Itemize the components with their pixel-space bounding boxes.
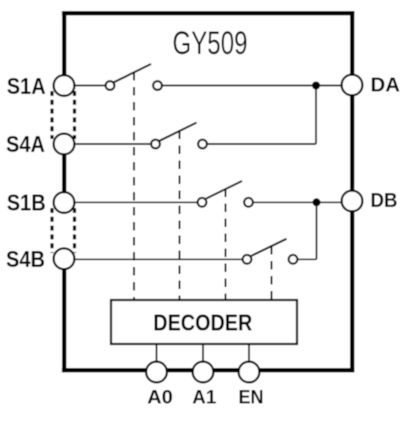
svg-text:DA: DA [371,74,401,96]
svg-text:S4B: S4B [6,246,45,272]
svg-text:GY509: GY509 [173,25,248,61]
svg-text:EN: EN [239,387,264,409]
svg-text:A1: A1 [192,387,216,409]
svg-text:S1A: S1A [7,73,46,99]
svg-text:DECODER: DECODER [153,310,252,336]
svg-text:A0: A0 [147,387,173,409]
svg-text:DB: DB [371,190,398,212]
svg-text:S1B: S1B [7,190,46,216]
svg-text:S4A: S4A [6,131,45,157]
